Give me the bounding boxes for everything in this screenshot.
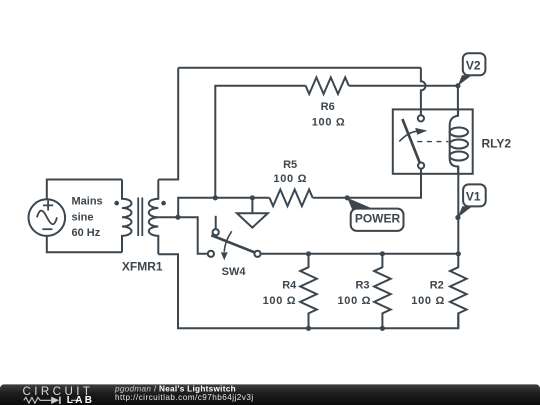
wire SW4 right to bottom resistor rail bbox=[261, 253, 459, 255]
CircuitLab logo bbox=[23, 385, 95, 405]
resistor R6 bbox=[306, 77, 349, 94]
junction R2 top bbox=[456, 251, 461, 256]
svg-text:R5: R5 bbox=[283, 159, 297, 171]
wire top rail bbox=[178, 67, 421, 69]
svg-text:R6: R6 bbox=[321, 101, 335, 113]
resistor R2 bbox=[450, 166, 467, 328]
junction node V1 bbox=[455, 215, 460, 220]
svg-text:POWER: POWER bbox=[355, 212, 401, 226]
svg-text:R4: R4 bbox=[282, 279, 297, 291]
svg-text:V1: V1 bbox=[466, 190, 481, 204]
junction R3 bottom bbox=[380, 326, 385, 331]
svg-text:SW4: SW4 bbox=[222, 266, 247, 278]
svg-text:60 Hz: 60 Hz bbox=[72, 227, 101, 239]
resistor R3 bbox=[374, 254, 391, 328]
node POWER flag bbox=[347, 198, 403, 231]
wire main rail right to relay switch bbox=[313, 169, 421, 198]
wire center tap bbox=[158, 217, 207, 254]
svg-text:XFMR1: XFMR1 bbox=[122, 260, 163, 274]
node V1 flag bbox=[458, 184, 486, 217]
junction R4 top bbox=[306, 251, 311, 256]
svg-text:V2: V2 bbox=[466, 58, 481, 72]
wire relay switch drop with hop bbox=[421, 68, 426, 116]
voltage source VS (Mains sine 60 Hz) bbox=[29, 199, 66, 236]
svg-text:Mains: Mains bbox=[72, 196, 103, 208]
junction center tap bbox=[175, 215, 180, 220]
svg-text:R2: R2 bbox=[430, 279, 444, 291]
junction node V2 bbox=[455, 83, 460, 88]
svg-text:100 Ω: 100 Ω bbox=[411, 295, 444, 307]
node V2 flag bbox=[458, 53, 486, 85]
svg-text:RLY2: RLY2 bbox=[482, 137, 512, 151]
resistor R4 bbox=[300, 254, 317, 328]
junction ground on rail bbox=[250, 195, 255, 200]
wire secondary top to top rail bbox=[158, 68, 178, 180]
relay RLY2 bbox=[393, 109, 473, 173]
transformer XFMR1 bbox=[114, 180, 166, 255]
switch SW4 bbox=[208, 216, 261, 260]
wire mains bottom bbox=[47, 236, 122, 252]
wire R6 line left bbox=[215, 86, 305, 198]
svg-text:LAB: LAB bbox=[67, 395, 94, 405]
svg-text:100 Ω: 100 Ω bbox=[263, 295, 296, 307]
wire mains top bbox=[47, 180, 122, 200]
junction R3 top bbox=[380, 251, 385, 256]
svg-text:sine: sine bbox=[72, 211, 94, 223]
junction POWER node bbox=[345, 195, 350, 200]
junction R4 bottom bbox=[306, 326, 311, 331]
svg-text:R3: R3 bbox=[355, 279, 369, 291]
svg-text:100 Ω: 100 Ω bbox=[338, 295, 371, 307]
wire main rail left bbox=[178, 198, 269, 217]
wire V2 node to relay coil bbox=[457, 86, 459, 116]
svg-text:http://circuitlab.com/c97hb64j: http://circuitlab.com/c97hb64jj2v3j bbox=[115, 393, 254, 402]
svg-text:100 Ω: 100 Ω bbox=[312, 116, 345, 128]
junction R6 branch on rail bbox=[213, 195, 218, 200]
ground bbox=[237, 198, 268, 228]
svg-text:100 Ω: 100 Ω bbox=[273, 173, 306, 185]
wire R6 right to V2 node bbox=[349, 85, 458, 87]
wire bottom rail bbox=[158, 254, 458, 328]
resistor R5 bbox=[270, 190, 313, 207]
